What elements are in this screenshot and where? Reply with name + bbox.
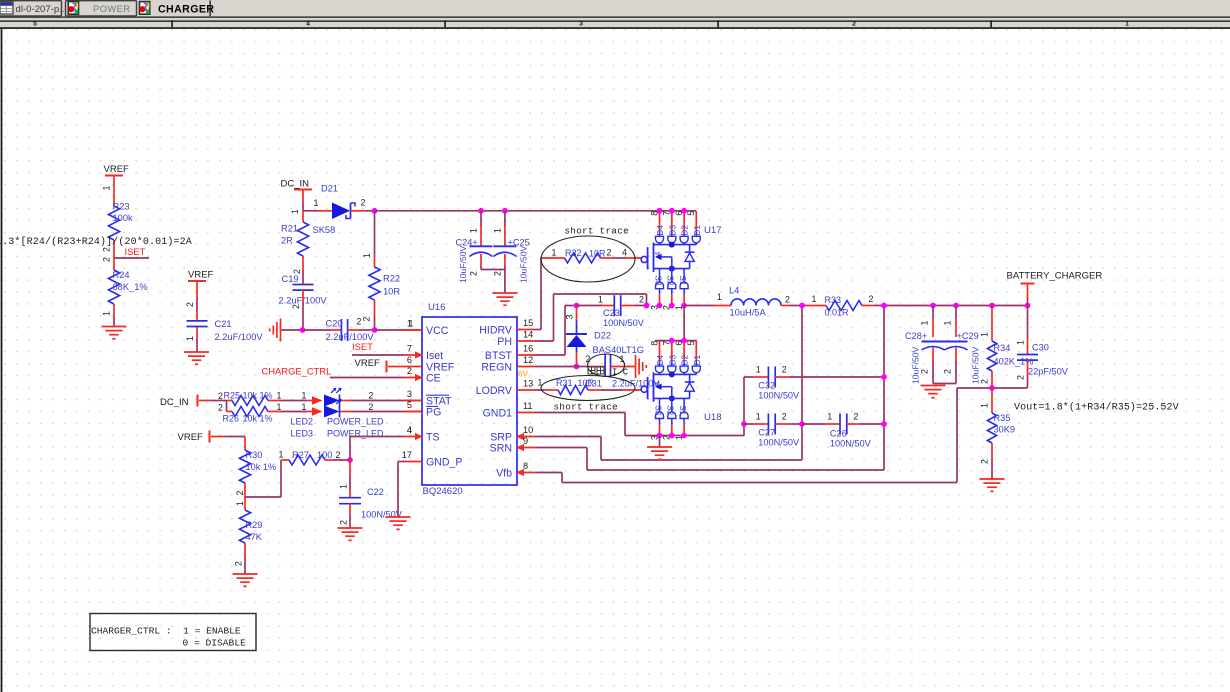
svg-text:2: 2	[852, 21, 856, 28]
svg-text:VREF: VREF	[188, 270, 214, 281]
svg-text:3: 3	[579, 21, 583, 28]
svg-text:100k: 100k	[113, 213, 134, 223]
svg-text:R21: R21	[281, 224, 298, 234]
svg-text:1: 1	[492, 228, 502, 233]
svg-text:short trace: short trace	[565, 226, 630, 237]
svg-text:2: 2	[782, 365, 787, 375]
svg-text:10k 1%: 10k 1%	[246, 462, 277, 472]
svg-text:R29: R29	[246, 520, 263, 530]
svg-text:C28+: C28+	[905, 331, 927, 341]
svg-text:10uF/50V: 10uF/50V	[519, 245, 529, 283]
svg-text:C27: C27	[758, 428, 775, 438]
svg-text:2: 2	[782, 412, 787, 422]
svg-text:2: 2	[492, 271, 502, 276]
svg-text:BQ24620: BQ24620	[423, 486, 463, 497]
svg-text:U16: U16	[428, 302, 445, 313]
svg-text:CHARGER: CHARGER	[158, 4, 214, 16]
svg-text:1: 1	[185, 336, 195, 341]
svg-text:1: 1	[469, 228, 479, 233]
svg-text:2.2uF/100V: 2.2uF/100V	[215, 332, 264, 342]
svg-text:1: 1	[943, 321, 953, 326]
svg-text:I C: I C	[612, 368, 629, 378]
svg-text:PG: PG	[426, 406, 441, 418]
svg-text:DC_IN: DC_IN	[281, 179, 310, 190]
svg-text:dl-0-207-p...: dl-0-207-p...	[16, 4, 68, 15]
svg-text:10uF/50V: 10uF/50V	[458, 245, 468, 283]
svg-text:7: 7	[407, 344, 412, 354]
svg-text:2: 2	[869, 294, 874, 304]
svg-text:2: 2	[853, 412, 858, 422]
svg-text:ISET: ISET	[352, 341, 373, 352]
svg-text:1: 1	[235, 501, 245, 506]
svg-text:HIDRV: HIDRV	[479, 324, 513, 336]
svg-text:2: 2	[607, 248, 612, 258]
svg-text:VREF: VREF	[355, 358, 381, 369]
svg-text:17: 17	[402, 450, 412, 460]
svg-text:R31: R31	[556, 378, 573, 388]
svg-text:GND_P: GND_P	[426, 456, 463, 468]
svg-text:2: 2	[369, 391, 374, 401]
svg-text:2: 2	[407, 366, 412, 376]
svg-text:C23: C23	[603, 308, 620, 318]
svg-text:1: 1	[362, 253, 372, 258]
svg-text:2: 2	[361, 198, 366, 208]
svg-text:2: 2	[920, 369, 930, 374]
svg-text:1: 1	[552, 248, 557, 258]
svg-text:1.3*[R24/(R23+R24)]/(20*0.01)=: 1.3*[R24/(R23+R24)]/(20*0.01)=2A	[0, 236, 192, 248]
svg-text:2: 2	[980, 459, 990, 464]
svg-text:68K_1%: 68K_1%	[113, 282, 148, 292]
svg-text:6V: 6V	[518, 370, 529, 379]
svg-text:1: 1	[812, 294, 817, 304]
svg-text:CHARGE_CTRL: CHARGE_CTRL	[262, 366, 332, 377]
svg-text:1: 1	[302, 402, 307, 412]
svg-text:Vfb: Vfb	[496, 467, 512, 479]
svg-text:CE: CE	[426, 372, 441, 384]
svg-text:13: 13	[523, 379, 533, 389]
svg-text:+C29: +C29	[957, 331, 979, 341]
svg-text:R35: R35	[994, 413, 1011, 423]
svg-text:1: 1	[102, 186, 112, 191]
svg-text:GND1: GND1	[483, 407, 513, 419]
svg-text:10R: 10R	[383, 287, 400, 297]
svg-text:DC_IN: DC_IN	[160, 397, 189, 408]
svg-text:47K: 47K	[246, 532, 263, 542]
svg-text:D21: D21	[321, 184, 338, 194]
svg-text:S1: S1	[678, 275, 687, 285]
svg-text:D1: D1	[693, 225, 702, 236]
svg-text:D4: D4	[656, 225, 665, 236]
svg-text:D2: D2	[681, 354, 690, 365]
svg-text:100N/50V: 100N/50V	[361, 510, 403, 520]
svg-text:11: 11	[523, 401, 533, 411]
svg-text:1: 1	[277, 391, 282, 401]
svg-text:POWER_LED: POWER_LED	[327, 417, 384, 427]
svg-text:2R: 2R	[281, 236, 293, 246]
svg-text:U18: U18	[704, 412, 722, 423]
svg-text:100N/50V: 100N/50V	[758, 391, 800, 401]
svg-text:CHARGER_CTRL : 1 = ENABLE: CHARGER_CTRL : 1 = ENABLE	[91, 626, 241, 637]
svg-text:100N/50V: 100N/50V	[603, 318, 645, 328]
svg-text:22pF/50V: 22pF/50V	[1028, 367, 1069, 377]
svg-text:LED2: LED2	[291, 417, 314, 427]
svg-text:4: 4	[306, 21, 310, 28]
svg-text:TS: TS	[426, 431, 440, 443]
svg-text:10uF/50V: 10uF/50V	[971, 346, 981, 384]
svg-text:2: 2	[291, 304, 301, 309]
svg-text:2: 2	[218, 391, 223, 401]
svg-text:Vout=1.8*(1+R34/R35)=25.52V: Vout=1.8*(1+R34/R35)=25.52V	[1014, 402, 1179, 414]
svg-text:100: 100	[317, 450, 332, 460]
svg-text:SRN: SRN	[490, 442, 512, 454]
svg-text:1: 1	[980, 332, 990, 337]
svg-text:BTST: BTST	[485, 350, 513, 362]
svg-text:C22: C22	[367, 487, 384, 497]
svg-text:1: 1	[980, 403, 990, 408]
svg-text:10R: 10R	[589, 249, 606, 259]
svg-text:1: 1	[339, 484, 349, 489]
svg-text:10uH/5A: 10uH/5A	[730, 308, 767, 318]
svg-text:2: 2	[336, 450, 341, 460]
svg-text:0 = DISABLE: 0 = DISABLE	[183, 638, 247, 649]
svg-text:1: 1	[920, 321, 930, 326]
svg-text:Iset: Iset	[426, 350, 443, 362]
svg-text:D3: D3	[668, 354, 677, 365]
svg-text:LED3: LED3	[291, 429, 314, 439]
svg-text:D2: D2	[681, 225, 690, 236]
svg-text:C26: C26	[830, 429, 847, 439]
svg-text:VREF: VREF	[104, 164, 130, 175]
svg-text:2: 2	[339, 520, 349, 525]
svg-text:100N/50V: 100N/50V	[758, 438, 800, 448]
svg-text:1: 1	[756, 412, 761, 422]
svg-text:D3: D3	[668, 225, 677, 236]
svg-text:2: 2	[469, 271, 479, 276]
svg-text:D1: D1	[693, 354, 702, 365]
svg-text:C32: C32	[758, 381, 775, 391]
svg-text:15: 15	[523, 318, 533, 328]
svg-text:VREF: VREF	[178, 432, 204, 443]
svg-text:2: 2	[357, 317, 362, 327]
svg-text:1: 1	[717, 292, 722, 302]
svg-text:5: 5	[407, 400, 412, 410]
svg-text:BATTERY_CHARGER: BATTERY_CHARGER	[1007, 271, 1103, 282]
svg-text:BAS40LT1G: BAS40LT1G	[593, 345, 645, 355]
svg-text:100N/50V: 100N/50V	[830, 439, 872, 449]
svg-text:R25: R25	[224, 391, 241, 401]
svg-text:C21: C21	[215, 319, 232, 329]
svg-text:REGN: REGN	[481, 361, 512, 373]
svg-text:2: 2	[218, 403, 223, 413]
svg-text:R26: R26	[223, 414, 240, 424]
svg-text:2: 2	[235, 491, 245, 496]
svg-text:1: 1	[302, 391, 307, 401]
svg-text:R27: R27	[292, 450, 309, 460]
svg-text:S2: S2	[666, 405, 675, 415]
svg-text:1: 1	[102, 311, 112, 316]
svg-text:6: 6	[407, 355, 412, 365]
svg-text:VCC: VCC	[426, 325, 449, 337]
svg-text:10uF/50V: 10uF/50V	[911, 346, 921, 384]
svg-text:0.01R: 0.01R	[825, 308, 850, 318]
svg-text:C20: C20	[326, 319, 343, 329]
svg-text:short trace: short trace	[554, 402, 619, 413]
svg-text:14: 14	[523, 330, 533, 340]
svg-text:S1: S1	[678, 405, 687, 415]
svg-text:R22: R22	[383, 274, 400, 284]
svg-text:2: 2	[369, 402, 374, 412]
svg-text:R30: R30	[246, 450, 263, 460]
svg-text:LODRV: LODRV	[476, 385, 513, 397]
svg-text:1: 1	[598, 295, 603, 305]
svg-text:C19: C19	[282, 274, 299, 284]
svg-text:PH: PH	[497, 336, 512, 348]
svg-text:S3: S3	[653, 275, 662, 285]
svg-text:10: 10	[523, 425, 533, 435]
svg-text:2: 2	[980, 379, 990, 384]
svg-text:R34: R34	[994, 343, 1011, 353]
svg-text:POWER: POWER	[93, 3, 130, 14]
svg-text:2: 2	[1016, 375, 1026, 380]
svg-text:SK58: SK58	[313, 225, 336, 235]
svg-text:2: 2	[639, 295, 644, 305]
svg-text:5: 5	[33, 21, 37, 28]
svg-text:L4: L4	[729, 286, 739, 296]
svg-text:R24: R24	[113, 270, 130, 280]
svg-text:D22: D22	[594, 331, 611, 341]
svg-text:R32: R32	[565, 248, 582, 258]
svg-text:2: 2	[943, 369, 953, 374]
svg-text:30K9: 30K9	[994, 425, 1015, 435]
svg-text:10R: 10R	[578, 378, 595, 388]
svg-text:S2: S2	[666, 275, 675, 285]
svg-text:D4: D4	[656, 354, 665, 365]
svg-text:1: 1	[1016, 340, 1026, 345]
svg-text:1: 1	[279, 450, 284, 460]
svg-text:S3: S3	[653, 405, 662, 415]
svg-text:3: 3	[407, 389, 412, 399]
svg-text:U17: U17	[704, 225, 722, 236]
svg-text:1: 1	[407, 319, 412, 329]
svg-text:1: 1	[290, 209, 300, 214]
svg-text:C30: C30	[1032, 343, 1049, 353]
svg-text:1: 1	[1125, 21, 1129, 28]
svg-text:10k 1%: 10k 1%	[243, 391, 273, 401]
svg-text:5: 5	[686, 211, 696, 216]
svg-text:1: 1	[277, 402, 282, 412]
svg-text:1: 1	[756, 365, 761, 375]
svg-text:2: 2	[102, 257, 112, 262]
svg-text:16: 16	[523, 344, 533, 354]
svg-text:1: 1	[827, 412, 832, 422]
svg-text:R23: R23	[113, 202, 130, 212]
svg-text:4: 4	[407, 425, 412, 435]
svg-text:2: 2	[234, 561, 244, 566]
svg-text:R33: R33	[825, 295, 842, 305]
svg-text:10k 1%: 10k 1%	[243, 414, 273, 424]
svg-text:3: 3	[565, 315, 575, 320]
svg-text:2: 2	[185, 302, 195, 307]
svg-text:12: 12	[523, 355, 533, 365]
svg-text:1: 1	[314, 198, 319, 208]
svg-text:2: 2	[785, 295, 790, 305]
svg-text:2: 2	[362, 317, 372, 322]
